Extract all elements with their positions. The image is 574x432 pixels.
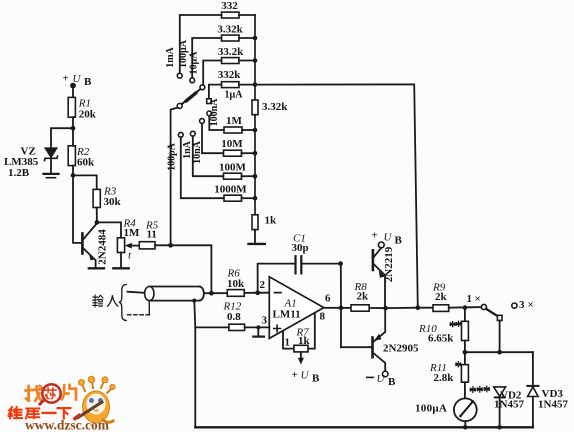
node coax shield [192, 299, 196, 303]
node R1/R2 [71, 126, 76, 131]
wire 10M right [242, 152, 256, 154]
svg-text:1: 1 [285, 337, 291, 349]
node R2/R3 [71, 173, 76, 178]
node C1/base [338, 261, 343, 266]
transistor Q 2N2219 [373, 242, 395, 308]
wire base feed [73, 175, 82, 243]
diode VD3 1N457 [527, 352, 568, 427]
wire 100nA to 1M row [209, 116, 224, 130]
node input [209, 291, 214, 296]
wire shield down to bottom rail [194, 301, 195, 428]
svg-text:+: + [372, 230, 378, 242]
wire row1 left down to 1mA contact [180, 15, 222, 73]
wire node to zener [51, 128, 73, 148]
wire 1nA to 100M row [193, 136, 224, 176]
resistor R10 [418, 308, 468, 353]
wire row1 right to bus [239, 14, 255, 16]
wire R3 node to R4 [97, 222, 121, 237]
switch pole contact [497, 315, 502, 320]
wire R3 to collector node [96, 208, 98, 223]
resistor R-332 row1 [221, 0, 239, 18]
svg-text:1k: 1k [298, 335, 311, 347]
op-amp U1 LM11 [269, 277, 324, 339]
svg-text:1mA: 1mA [165, 46, 176, 67]
svg-text:1N457: 1N457 [538, 399, 568, 411]
resistor R-332k row4 [218, 69, 242, 88]
svg-text:U: U [73, 73, 82, 85]
meter M 100uA [415, 398, 477, 421]
input brace [119, 285, 127, 321]
wire pole down [499, 321, 501, 353]
svg-text:2.8k: 2.8k [434, 372, 455, 384]
wire R9 to switch [449, 306, 482, 309]
wires R2 [72, 128, 74, 175]
wire to R9 [418, 307, 433, 309]
svg-text:U: U [384, 232, 393, 244]
resistor R11 [429, 352, 468, 398]
label +UB at R7 [292, 369, 321, 385]
switch contact 3x [512, 299, 534, 311]
svg-text:332: 332 [221, 0, 238, 12]
wire 100pA to 1000M row [181, 137, 224, 198]
svg-text:3: 3 [519, 299, 525, 311]
resistor R3 [93, 186, 121, 209]
svg-text:LM11: LM11 [273, 309, 301, 321]
resistor R1 [68, 97, 97, 120]
wire R6 to pin2 [244, 292, 269, 294]
svg-text:t: t [128, 250, 132, 262]
wire meter row [465, 351, 533, 353]
svg-text:100μA: 100μA [178, 39, 189, 68]
node R5/wiper [168, 243, 173, 248]
svg-text:60k: 60k [77, 157, 95, 169]
resistor 10M [221, 138, 243, 156]
node pin3 gnd tap [256, 325, 260, 329]
svg-text:100M: 100M [219, 162, 247, 174]
wire R12 to pin3 [245, 326, 270, 328]
wire node to input line [171, 245, 212, 293]
terminal +UB left [63, 73, 93, 89]
wire bus middle [254, 115, 256, 215]
potentiometer R7 [294, 327, 311, 364]
svg-text:3.32k: 3.32k [262, 101, 288, 113]
wire row3 right [239, 60, 255, 62]
resistor R8 [351, 281, 369, 311]
wire row4 right [239, 84, 255, 86]
wire row4 left down to 1uA contact [209, 85, 222, 99]
svg-text:100nA: 100nA [209, 98, 220, 127]
ground below emitter [89, 267, 104, 269]
svg-text:30k: 30k [104, 196, 122, 208]
switch contact 100nA [207, 98, 220, 127]
svg-text:11: 11 [147, 229, 157, 241]
wire input hot [128, 292, 145, 293]
input label [93, 295, 103, 307]
svg-text:100pA: 100pA [167, 142, 178, 171]
switch contact 1uA [207, 90, 244, 104]
wire output vertical [340, 264, 342, 348]
resistor R5 [139, 220, 158, 249]
wire 100M right [242, 175, 256, 177]
wire node to R6 [211, 292, 227, 294]
svg-text:6: 6 [325, 293, 331, 305]
wire R12 row [195, 326, 229, 328]
node VD2/rail [497, 425, 502, 430]
switch contact 10nA [192, 119, 204, 164]
node VD2 top [497, 350, 502, 355]
svg-text:U: U [377, 373, 386, 385]
diode VD2 1N457 [494, 387, 525, 427]
svg-text:B: B [395, 235, 403, 247]
svg-text:20k: 20k [79, 109, 97, 121]
switch contact 1mA [165, 46, 182, 78]
svg-text:1: 1 [467, 293, 473, 305]
svg-text:×: × [528, 299, 534, 311]
svg-text:+: + [63, 73, 69, 85]
svg-text:×: × [475, 293, 481, 305]
watermark logo dzsc [9, 376, 116, 432]
node R10 tap [463, 305, 468, 310]
ground below 1k [249, 230, 265, 244]
node C1 tap [255, 290, 260, 295]
svg-text:10μA: 10μA [189, 51, 200, 75]
svg-text:+: + [292, 369, 298, 381]
svg-text:B: B [388, 376, 396, 388]
node emitters [383, 306, 388, 311]
svg-text:1000M: 1000M [214, 184, 247, 196]
pin 1 stub and R7 loop [283, 313, 315, 348]
svg-text:2k: 2k [357, 291, 370, 303]
resistor 3.32k vertical [252, 100, 288, 115]
svg-text:100μA: 100μA [415, 403, 447, 415]
transistor Q 2N2484 [82, 223, 108, 266]
wire wiper to R5 node [171, 108, 178, 246]
wire R8 to emitter node [369, 307, 385, 309]
label +UB at 2N2219 [372, 230, 403, 247]
rotary switch wiper [177, 90, 200, 109]
svg-text:33.2k: 33.2k [218, 46, 244, 58]
wire coax center to node [204, 292, 212, 294]
node R10/R11 [463, 350, 468, 355]
svg-text:10M: 10M [221, 138, 243, 150]
svg-text:10k: 10k [227, 278, 245, 290]
resistor 1M [224, 115, 243, 133]
svg-text:B: B [84, 76, 92, 88]
resistor R-33.2k row3 [218, 46, 244, 64]
svg-text:1M: 1M [124, 227, 141, 239]
resistor R6 [227, 268, 246, 297]
capacitor C1 [292, 233, 309, 274]
svg-text:3.32k: 3.32k [217, 24, 243, 36]
resistor R-3.32k row2 [217, 24, 243, 42]
wire 2905 base [341, 346, 371, 348]
svg-text:1.2B: 1.2B [8, 167, 30, 179]
svg-text:1N457: 1N457 [494, 399, 524, 411]
svg-text:0.8: 0.8 [227, 311, 241, 323]
transistor Q 2N2905 [373, 308, 419, 377]
wire row2 right [239, 37, 255, 39]
node bus/R9 [415, 305, 420, 310]
svg-text:B: B [312, 373, 320, 385]
node dots on bus [253, 36, 258, 201]
wire row2 left down to 100uA contact [192, 38, 221, 78]
coax cable shield [145, 287, 204, 315]
wire output [324, 307, 341, 309]
switch arm 1x [486, 309, 498, 316]
svg-text:1M: 1M [226, 115, 243, 127]
wire 10nA to 10M row [202, 123, 224, 153]
resistor R2 [68, 146, 95, 169]
wire +UB to R1 [72, 88, 74, 97]
node R3 bottom [95, 220, 100, 225]
potentiometer R4 [117, 218, 140, 262]
svg-text:332k: 332k [218, 69, 242, 81]
switch contact 100pA [167, 132, 184, 170]
svg-text:3: 3 [262, 315, 268, 327]
stars *** [470, 387, 476, 393]
ground at pin3 [253, 327, 264, 336]
svg-text:2N2905: 2N2905 [383, 343, 419, 355]
svg-text:2: 2 [260, 279, 266, 291]
wire R5 to node [155, 244, 171, 246]
svg-text:1nA: 1nA [182, 140, 193, 159]
wire output to R8 [341, 307, 351, 309]
ground below zener [44, 174, 59, 178]
resistor 1000M [214, 184, 247, 202]
resistor 1k [252, 215, 277, 230]
wire top-right long run [255, 84, 418, 307]
wire 1M right [242, 129, 255, 131]
wire R1 to node [72, 117, 74, 128]
resistor R9 [432, 282, 449, 312]
wire emitter node to R9 node [386, 307, 418, 309]
node meter/rail [463, 425, 468, 430]
svg-text:8: 8 [320, 311, 326, 323]
switch contact 1nA [182, 131, 195, 159]
switch contact 100uA [178, 39, 195, 82]
zener VZ LM385 [4, 146, 58, 180]
wire 1000M right [242, 197, 256, 199]
svg-text:2N2484: 2N2484 [97, 229, 109, 265]
svg-text:2N2219: 2N2219 [383, 246, 395, 282]
node output [339, 306, 344, 311]
svg-text:30p: 30p [292, 242, 309, 254]
label -UB at 2N2905 [367, 373, 396, 388]
resistor R12 [223, 301, 245, 331]
wire right bus [254, 15, 256, 100]
svg-text:1k: 1k [265, 215, 278, 227]
wire R4 to ground [120, 253, 122, 267]
ground below R4 [113, 267, 128, 269]
wire C1 right leg [301, 263, 340, 265]
bottom rail [195, 426, 533, 428]
svg-text:U: U [301, 370, 310, 382]
wire meter to rail [464, 421, 466, 427]
switch contact 10uA [189, 51, 205, 90]
input ground dashes [128, 314, 151, 316]
wire node to R3 [73, 175, 97, 189]
svg-text:2k: 2k [435, 291, 448, 303]
resistor 100M [219, 162, 247, 180]
svg-text:6.65k: 6.65k [428, 333, 454, 345]
wire C1 left leg [258, 264, 296, 293]
wire row3 left down to 10uA contact [203, 61, 221, 85]
svg-text:1μA: 1μA [225, 90, 244, 101]
switch contact 1x [467, 293, 487, 310]
